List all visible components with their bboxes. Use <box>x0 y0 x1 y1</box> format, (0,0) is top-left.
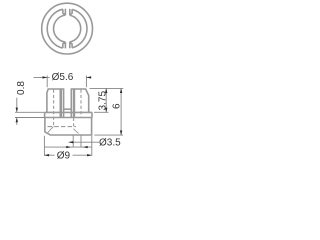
svg-text:Ø9: Ø9 <box>57 151 71 162</box>
svg-text:Ø5.6: Ø5.6 <box>52 72 74 83</box>
svg-text:Ø3.5: Ø3.5 <box>99 138 121 149</box>
svg-text:0.8: 0.8 <box>16 81 27 95</box>
svg-text:6: 6 <box>112 103 123 109</box>
svg-text:3.75: 3.75 <box>98 91 109 111</box>
